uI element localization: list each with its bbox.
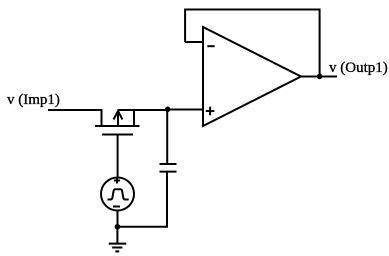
V1 plus sign xyxy=(114,178,120,184)
wire op-amp output xyxy=(301,76,337,78)
pulse voltage source V1 xyxy=(101,178,134,211)
wire node B to capacitor bottom xyxy=(117,172,167,227)
V1 pulse waveform xyxy=(108,189,129,199)
wire inverting input xyxy=(185,41,203,43)
node B junction dot xyxy=(115,224,121,230)
wire feedback loop xyxy=(185,10,320,77)
wire node A to op-amp plus input xyxy=(168,109,203,111)
node A junction dot xyxy=(165,107,171,113)
wire gate to pulse source xyxy=(117,135,119,177)
transistor M1 gate plate xyxy=(102,134,133,136)
wire capacitor top to node A xyxy=(166,110,168,165)
op-amp U1 triangle xyxy=(203,27,301,126)
transistor M1 bulk arrow xyxy=(114,111,123,126)
V1 minus sign xyxy=(113,206,120,208)
op-amp U1 minus input label xyxy=(207,45,214,47)
ground xyxy=(109,244,127,252)
transistor M1 drain lead xyxy=(133,110,135,126)
wire source bottom to node B xyxy=(117,211,119,227)
wire node B to ground xyxy=(116,227,118,244)
transistor M1 channel plate xyxy=(95,125,140,127)
wire drain/bulk to node A xyxy=(118,109,169,111)
op-amp U1 plus input label xyxy=(206,107,215,116)
node Outp1 junction dot xyxy=(317,74,323,80)
capacitor C1 xyxy=(160,164,177,172)
wire input to transistor source xyxy=(48,110,102,126)
svg-text:v (Outp1): v (Outp1) xyxy=(329,60,388,76)
svg-text:v (Imp1): v (Imp1) xyxy=(7,92,60,108)
